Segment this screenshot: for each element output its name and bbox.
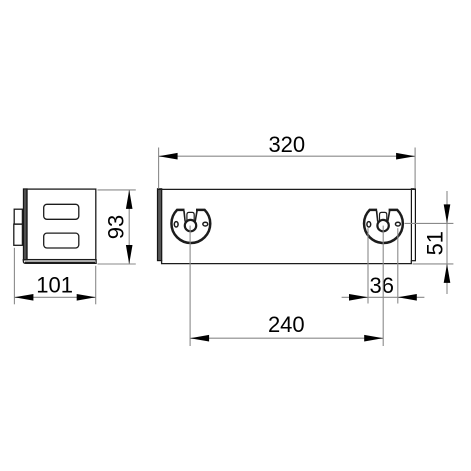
arrowhead 93 top	[126, 190, 133, 209]
svg-text:36: 36	[370, 273, 394, 298]
extension line 93 bottom	[98, 263, 136, 265]
wall plate strip	[23, 189, 27, 260]
arrowhead 36 right	[398, 294, 417, 301]
arrowhead 240 right	[364, 335, 383, 342]
extension line 101 left	[13, 248, 15, 304]
svg-text:93: 93	[104, 215, 129, 239]
svg-text:51: 51	[423, 231, 448, 255]
dimension line 101	[14, 296, 95, 298]
arrowhead 93 bottom	[126, 245, 133, 264]
bottom lip thick lower edge	[25, 262, 95, 264]
arrowhead 320 left	[159, 153, 178, 160]
extension line 51 bottom	[413, 263, 454, 265]
arrowhead 36 left	[349, 294, 368, 301]
keyhole fixture left	[171, 210, 210, 243]
svg-text:320: 320	[268, 132, 305, 157]
arrowhead 101 left	[14, 294, 33, 301]
extension line right	[414, 148, 416, 189]
arrowhead 101 right	[77, 294, 96, 301]
bottom shelf edge	[162, 260, 412, 263]
keyhole fixture right	[364, 210, 403, 243]
extension line 51 top	[405, 222, 454, 224]
arrowhead 51 bottom	[444, 264, 451, 283]
extension line 36 right (from right slot hole)	[397, 228, 399, 303]
side body	[27, 189, 96, 260]
svg-text:101: 101	[36, 272, 73, 297]
clip lower box	[14, 224, 23, 245]
extension line left	[158, 148, 160, 189]
slot lower	[44, 233, 79, 248]
dimension line 93	[128, 190, 130, 264]
arrowhead 320 right	[396, 153, 415, 160]
arrowhead 51 top	[444, 204, 451, 223]
left end cap	[158, 189, 162, 261]
dimension line 36	[342, 296, 425, 298]
svg-text:240: 240	[268, 312, 305, 337]
slot upper	[44, 204, 79, 219]
centre line right keyhole / extension 240 right	[382, 226, 384, 346]
extension line 101 right	[95, 266, 97, 305]
dimension line 240	[190, 337, 383, 339]
body top edge	[158, 188, 416, 190]
extension line 36 left (from left slot hole)	[367, 228, 369, 303]
extension line 93 top	[98, 189, 136, 191]
dimension line 51	[446, 191, 448, 294]
centre line left keyhole / extension 240 left	[189, 226, 191, 346]
clip upper box	[14, 209, 22, 224]
bottom lip	[23, 260, 96, 264]
arrowhead 240 left	[190, 335, 209, 342]
right end cap	[411, 189, 415, 261]
dimension line	[159, 155, 416, 157]
